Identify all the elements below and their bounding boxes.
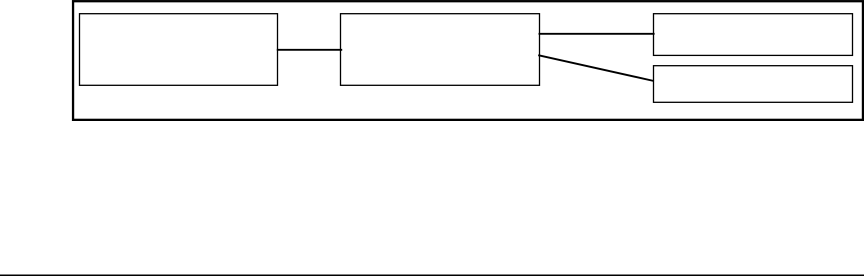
wire box2 to box3 <box>539 33 655 35</box>
bottom rule <box>0 274 864 276</box>
box 1 (left block) <box>80 14 278 86</box>
box 4 (bottom right block) <box>654 66 853 103</box>
box 3 (top right block) <box>654 14 853 56</box>
wire box1 to box2 <box>277 49 342 51</box>
box 2 (middle block) <box>341 14 540 86</box>
wire box2 to box4 (diagonal) <box>538 55 654 81</box>
outer frame <box>73 1 863 120</box>
